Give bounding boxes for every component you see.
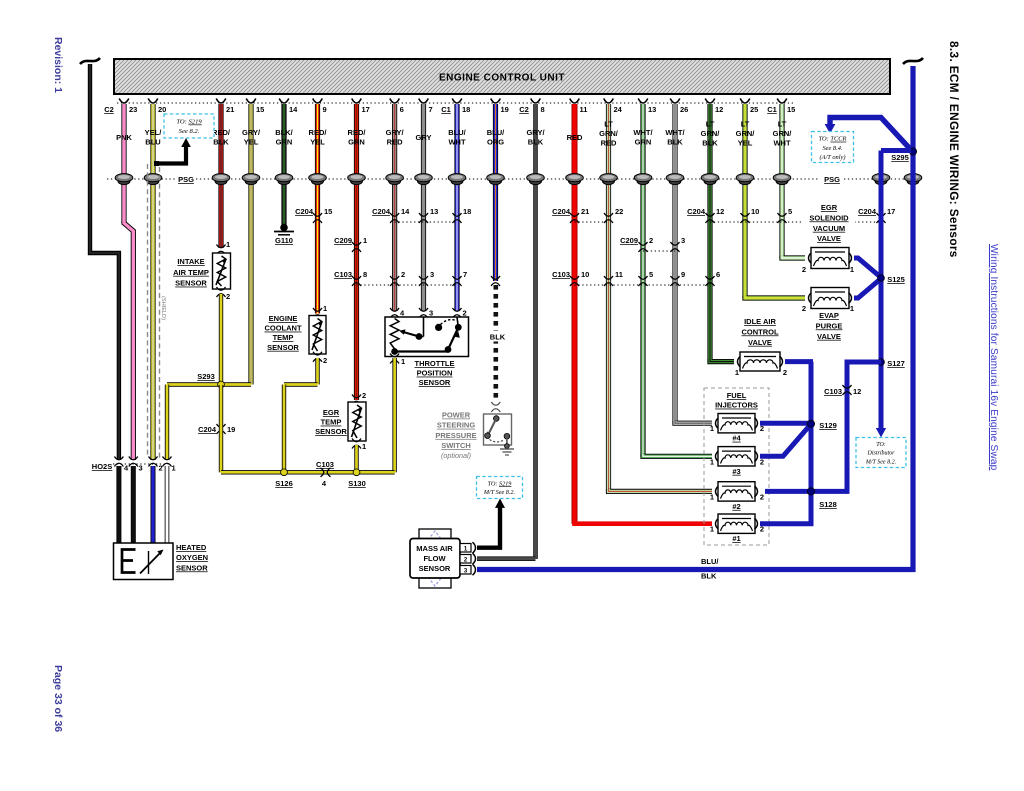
pin cup 21 [216, 99, 226, 104]
svg-text:2: 2 [323, 356, 327, 365]
pin cup 12 [705, 99, 715, 104]
junction S128 [807, 488, 814, 495]
svg-text:HO2S: HO2S [92, 462, 112, 471]
pin cup 18 [452, 99, 462, 104]
svg-text:TEMP: TEMP [321, 418, 342, 427]
svg-text:C103: C103 [334, 270, 352, 279]
grommet on GRY [418, 177, 430, 184]
svg-text:9: 9 [681, 270, 685, 279]
svg-text:C103: C103 [316, 460, 334, 469]
svg-text:Distributor: Distributor [866, 451, 895, 457]
wire BLK dashed to power steering pressure switch [493, 285, 498, 402]
fuel injectors dashed box [704, 388, 769, 545]
svg-text:GRN/: GRN/ [599, 129, 619, 138]
svg-text:5: 5 [788, 207, 792, 216]
svg-text:PNK: PNK [116, 133, 132, 142]
svg-text:YEL: YEL [310, 138, 325, 147]
pin cup 20 [148, 99, 158, 104]
svg-text:RED: RED [387, 138, 403, 147]
grommet on RED [569, 177, 581, 184]
svg-text:2: 2 [760, 492, 764, 501]
svg-text:BLU/: BLU/ [448, 128, 466, 137]
wire yellow ECT branch horizontal [284, 382, 318, 386]
svg-text:2: 2 [802, 265, 806, 274]
svg-text:15: 15 [324, 207, 332, 216]
grommet on LT GRN/BLK [704, 177, 716, 184]
wire LT GRN/BLK to idle air control valve [710, 359, 734, 362]
pin cup 26 [670, 99, 680, 104]
svg-text:10: 10 [751, 207, 759, 216]
svg-text:TO: TCCR: TO: TCCR [819, 136, 847, 143]
svg-text:1: 1 [362, 442, 366, 451]
reference box TO: S219 M/T See 8.2 [477, 477, 523, 499]
svg-text:WHT: WHT [448, 138, 465, 147]
svg-text:19: 19 [227, 425, 235, 434]
svg-text:PSG: PSG [178, 175, 194, 184]
pin cup 6 [390, 99, 400, 104]
pin cup 8 [531, 99, 541, 104]
svg-text:GRN: GRN [635, 138, 652, 147]
svg-text:#4: #4 [732, 434, 741, 443]
svg-text:See 8.2.: See 8.2. [179, 128, 200, 135]
svg-text:20: 20 [158, 105, 166, 114]
pin cup 15 [246, 99, 256, 104]
connector break row C204 14 13 18 [395, 221, 457, 223]
svg-text:GRN/: GRN/ [773, 129, 793, 138]
heated oxygen sensor box [114, 543, 174, 580]
svg-text:1: 1 [710, 424, 714, 433]
svg-text:14: 14 [401, 207, 410, 216]
svg-text:BLK/: BLK/ [275, 128, 293, 137]
junction S125 [878, 275, 885, 282]
svg-text:#1: #1 [732, 534, 740, 543]
svg-text:POWER: POWER [442, 411, 471, 420]
svg-text:1: 1 [401, 357, 405, 366]
wire PNK pin 23 from ECU [121, 104, 126, 223]
svg-text:BLK: BLK [213, 138, 229, 147]
connector break row C209 2 3 [643, 250, 675, 252]
connector break row C103 8 2 3 7 [357, 284, 458, 286]
svg-text:LT: LT [706, 120, 715, 129]
svg-text:Revision: 1: Revision: 1 [52, 37, 64, 93]
grommet on blue wire S295 branch [875, 177, 887, 184]
svg-text:12: 12 [853, 387, 861, 396]
svg-text:3: 3 [139, 464, 143, 473]
svg-text:M/T See 8.2.: M/T See 8.2. [865, 459, 896, 465]
svg-text:C204: C204 [198, 425, 217, 434]
svg-text:RED/: RED/ [348, 128, 367, 137]
svg-text:#2: #2 [732, 502, 740, 511]
blue wire from EGR solenoid valve pin1 to S125 [854, 258, 881, 278]
reference box TO: S219 See 8.2 [164, 114, 214, 138]
wire RED/YEL pin 9 from ECU [315, 104, 320, 314]
blue wire continuation squiggle top right [903, 58, 923, 64]
pin cup 13 [638, 99, 648, 104]
svg-text:C1: C1 [441, 105, 451, 114]
throttle position sensor box [385, 317, 469, 357]
wire LT GRN/RED pin 24 from ECU [606, 104, 611, 491]
svg-text:RED/: RED/ [309, 128, 328, 137]
svg-text:ENGINE: ENGINE [269, 314, 298, 323]
svg-text:17: 17 [362, 105, 370, 114]
blue wire injector 1 pin2 [760, 521, 814, 526]
svg-text:SOLENOID: SOLENOID [809, 213, 849, 222]
svg-text:2: 2 [783, 368, 787, 377]
svg-text:LT: LT [604, 120, 613, 129]
svg-text:2: 2 [401, 270, 405, 279]
connector break C204 15 on RED/YEL [313, 213, 322, 216]
TPS pin breaks and numbers [390, 308, 399, 311]
svg-text:SENSOR: SENSOR [175, 279, 207, 288]
svg-text:1: 1 [850, 265, 854, 274]
svg-text:GRN: GRN [348, 138, 365, 147]
svg-text:PRESSURE: PRESSURE [435, 431, 476, 440]
svg-text:TEMP: TEMP [273, 333, 294, 342]
svg-text:5: 5 [649, 270, 653, 279]
svg-text:GRN/: GRN/ [701, 129, 721, 138]
wire LT GRN/BLK pin 12 from ECU [707, 104, 712, 362]
connector break C204 19 [217, 424, 226, 427]
svg-text:14: 14 [289, 105, 298, 114]
svg-text:7: 7 [463, 270, 467, 279]
power steering pressure switch [484, 414, 512, 445]
svg-text:C204: C204 [858, 207, 877, 216]
svg-text:3: 3 [430, 270, 434, 279]
svg-text:C103: C103 [552, 270, 570, 279]
svg-text:3: 3 [681, 236, 685, 245]
svg-text:S126: S126 [275, 479, 293, 488]
svg-text:VALVE: VALVE [748, 338, 772, 347]
wire RED pin 11 from ECU [572, 104, 578, 524]
wire white HO2S pin1 down [165, 466, 170, 543]
svg-text:WHT/: WHT/ [665, 128, 685, 137]
svg-text:GRY: GRY [416, 133, 432, 142]
wire RED/BLK pin 21 from ECU [218, 104, 223, 248]
svg-text:OXYGEN: OXYGEN [176, 553, 208, 562]
svg-text:EGR: EGR [323, 408, 340, 417]
svg-text:BLU/: BLU/ [701, 557, 719, 566]
svg-text:25: 25 [750, 105, 758, 114]
svg-text:EVAP: EVAP [819, 311, 839, 320]
svg-text:PSG: PSG [824, 175, 840, 184]
ECU pin connector dotted line [117, 102, 793, 104]
svg-text:GRN: GRN [276, 138, 293, 147]
svg-text:CONTROL: CONTROL [741, 327, 778, 336]
grommet on GRY/BLK [530, 177, 542, 184]
pin cup 7 [419, 99, 429, 104]
grommet on blue wire main [907, 177, 919, 184]
svg-text:SWITCH: SWITCH [441, 441, 471, 450]
grommet on WHT/GRN [637, 177, 649, 184]
svg-text:6: 6 [716, 270, 720, 279]
svg-text:AIR TEMP: AIR TEMP [173, 268, 209, 277]
svg-text:Page 33 of 36: Page 33 of 36 [52, 665, 64, 732]
wire GRY pin 7 from ECU [421, 104, 426, 311]
grommet on GRY/YEL [245, 177, 257, 184]
connector break on BLU/ORG [491, 276, 500, 279]
blue wire injector 4 pin2 [760, 421, 811, 426]
svg-text:C204: C204 [552, 207, 571, 216]
pin cup 9 [313, 99, 323, 104]
pin cup 14 [279, 99, 289, 104]
svg-text:RED/: RED/ [212, 128, 231, 137]
svg-text:BLK: BLK [490, 333, 506, 342]
svg-text:M/T See 8.2.: M/T See 8.2. [483, 489, 515, 496]
svg-text:11: 11 [580, 105, 588, 114]
wire yellow ECT branch down to S126 [282, 385, 286, 473]
svg-text:21: 21 [581, 207, 589, 216]
svg-text:24: 24 [614, 105, 623, 114]
wire PNK jog to HO2S pin 3 [124, 221, 133, 460]
svg-text:15: 15 [256, 105, 264, 114]
mass air flow sensor box [410, 539, 460, 579]
svg-text:THROTTLE: THROTTLE [415, 359, 455, 368]
svg-text:BLU: BLU [145, 138, 160, 147]
wire BLK/GRN pin 14 from ECU [281, 104, 286, 226]
svg-text:(SHIELD): (SHIELD) [160, 296, 166, 320]
svg-text:12: 12 [715, 105, 723, 114]
svg-text:1: 1 [172, 464, 176, 473]
svg-text:17: 17 [887, 207, 895, 216]
pin cup 15 [777, 99, 787, 104]
svg-text:2: 2 [463, 309, 467, 318]
ECU box ENGINE CONTROL UNIT [114, 59, 890, 94]
svg-text:19: 19 [501, 105, 509, 114]
wire yellow S293 down to bus [219, 385, 223, 472]
svg-text:EGR: EGR [821, 203, 838, 212]
wire LT GRN/YEL to EVAP purge valve [745, 296, 805, 299]
svg-text:ENGINE CONTROL UNIT: ENGINE CONTROL UNIT [439, 73, 565, 84]
blue wire from EVAP valve pin1 to S125 [854, 279, 881, 299]
svg-text:MASS AIR: MASS AIR [416, 544, 453, 553]
svg-text:VALVE: VALVE [817, 234, 841, 243]
pin cup 23 [119, 99, 129, 104]
wire LT GRN/RED to injector 2 [609, 489, 713, 491]
shield tap arrow to TO:S219 [156, 146, 186, 164]
svg-text:G110: G110 [275, 236, 293, 245]
wire BLU/ORG pin 19 from ECU [493, 104, 498, 281]
connector break row C204 21 22 [575, 221, 609, 223]
wire LT GRN/WHT to EGR solenoid vacuum valve [782, 256, 805, 259]
svg-text:INJECTORS: INJECTORS [715, 401, 758, 410]
PSPS connector break [491, 402, 500, 405]
svg-text:BLK: BLK [702, 139, 718, 148]
svg-text:21: 21 [226, 105, 234, 114]
MAF pin3 blue wire BLU/BLK [477, 66, 913, 570]
grommet on PNK [118, 177, 130, 184]
svg-text:TO: S219: TO: S219 [488, 480, 512, 487]
grommet on LT GRN/RED [603, 177, 615, 184]
wire yellow ground bus horizontal [221, 470, 395, 474]
intake air temp sensor [217, 245, 226, 248]
svg-text:C1: C1 [767, 105, 777, 114]
svg-text:6: 6 [400, 105, 404, 114]
svg-text:8: 8 [363, 270, 367, 279]
svg-text:RED: RED [601, 139, 617, 148]
ground wire black from squiggle to HO2S pin 4 [90, 64, 119, 460]
grommet on YEL/BLU [147, 177, 159, 184]
svg-text:13: 13 [430, 207, 438, 216]
MAF pin boxes 1 2 3 [460, 544, 471, 553]
svg-text:9: 9 [323, 105, 327, 114]
svg-text:LT: LT [741, 120, 750, 129]
svg-text:COOLANT: COOLANT [264, 324, 301, 333]
wire BLU/WHT pin 18 from ECU [454, 104, 459, 311]
svg-text:8: 8 [541, 105, 545, 114]
svg-text:TO: S219: TO: S219 [176, 119, 202, 126]
svg-text:13: 13 [648, 105, 656, 114]
fuel injector #4 [716, 418, 719, 429]
svg-text:GRY/: GRY/ [242, 128, 261, 137]
wire YEL/BLU pin 20 from ECU [150, 104, 155, 460]
grommet on LT GRN/WHT [776, 177, 788, 184]
engine coolant temp sensor [313, 308, 322, 311]
blue wire S295 to C204-17 branch [881, 148, 911, 153]
svg-text:1: 1 [735, 368, 739, 377]
svg-text:#3: #3 [732, 467, 740, 476]
svg-text:WHT/: WHT/ [633, 128, 653, 137]
junction S129 [807, 420, 814, 427]
svg-text:C204: C204 [687, 207, 706, 216]
wire WHT/GRN pin 13 from ECU [640, 104, 645, 456]
svg-text:C209: C209 [334, 236, 352, 245]
grommet on RED/GRN [351, 177, 363, 184]
svg-text:LT: LT [778, 120, 787, 129]
svg-text:8.3. ECM / ENGINE WIRING: Sens: 8.3. ECM / ENGINE WIRING: Sensors [947, 41, 961, 258]
svg-text:FUEL: FUEL [727, 391, 747, 400]
PSG shield dotted line [107, 178, 175, 180]
svg-text:1: 1 [363, 236, 367, 245]
wire yellow to HO2S pin 1 [165, 385, 169, 461]
wire black HO2S pin4 down [116, 466, 121, 543]
svg-text:18: 18 [462, 105, 470, 114]
svg-text:22: 22 [615, 207, 623, 216]
junction S126 [281, 469, 288, 476]
pin cup 19 [491, 99, 501, 104]
wire yellow EGR temp pin1 down to S130 [354, 445, 358, 472]
svg-text:S295: S295 [891, 153, 909, 162]
svg-text:See 8.4.: See 8.4. [822, 145, 842, 152]
svg-text:S128: S128 [819, 500, 837, 509]
svg-text:C2: C2 [104, 105, 114, 114]
svg-text:2: 2 [802, 304, 806, 313]
pin cup 24 [604, 99, 614, 104]
wire yellow S293 horizontal [167, 382, 251, 386]
svg-text:7: 7 [429, 105, 433, 114]
svg-text:15: 15 [787, 105, 795, 114]
svg-text:1: 1 [710, 457, 714, 466]
svg-text:3: 3 [429, 309, 433, 318]
svg-text:(A/T only): (A/T only) [820, 154, 846, 161]
wire blue HO2S pin2 down [151, 466, 156, 543]
connector break row C209 1 [352, 242, 361, 245]
svg-text:BLK: BLK [701, 572, 717, 581]
TPS resistor zigzag [390, 319, 399, 350]
blue wire S127 branch to injectors [765, 362, 881, 491]
blue wire injector bus vertical [809, 362, 814, 524]
svg-text:YEL: YEL [738, 139, 753, 148]
MAF pin2 gray wire [477, 556, 536, 561]
ground G110 [281, 224, 288, 231]
blue wire IACV pin2 to bus [785, 359, 813, 364]
svg-text:TO:: TO: [876, 442, 886, 448]
egr solenoid vacuum valve [809, 253, 812, 264]
svg-text:S125: S125 [887, 275, 905, 284]
grommet on BLK/GRN [278, 177, 290, 184]
pin cup 17 [352, 99, 362, 104]
HO2S connector dotted line [113, 463, 170, 465]
svg-text:POSITION: POSITION [417, 369, 453, 378]
shield dashed lines around YEL/BLU [147, 164, 149, 458]
svg-text:GRN/: GRN/ [736, 129, 756, 138]
junction S130 [353, 469, 360, 476]
svg-text:1: 1 [710, 492, 714, 501]
HO2S sensing element arrow [148, 551, 150, 574]
svg-text:C204: C204 [295, 207, 314, 216]
junction S127 [878, 359, 885, 366]
wire yellow ECT pin2 down [315, 358, 319, 385]
svg-text:BLU/: BLU/ [487, 128, 505, 137]
svg-text:FLOW: FLOW [423, 554, 446, 563]
svg-text:C103: C103 [824, 387, 842, 396]
svg-text:23: 23 [129, 105, 137, 114]
svg-text:S130: S130 [348, 479, 366, 488]
fuel injector #3 [716, 451, 719, 462]
pin cup 11 [570, 99, 580, 104]
MAF pin1 black wire and arrow to TO:S219 [477, 507, 500, 548]
svg-text:18: 18 [463, 207, 471, 216]
svg-text:BLK: BLK [528, 138, 544, 147]
svg-text:SENSOR: SENSOR [419, 564, 451, 573]
wire RED/GRN pin 17 from ECU [354, 104, 359, 400]
PSPS ground symbol [505, 444, 510, 449]
grommet on WHT/BLK [669, 177, 681, 184]
wire RED to injector 1 [575, 521, 713, 524]
svg-text:Wiring Instructions for Samura: Wiring Instructions for Samurai 16v Engi… [988, 244, 999, 471]
svg-text:SENSOR: SENSOR [315, 427, 347, 436]
svg-text:1: 1 [850, 304, 854, 313]
svg-text:C204: C204 [372, 207, 391, 216]
wire yellow IAT pin2 to S293 [219, 294, 223, 385]
svg-text:BLK: BLK [667, 138, 683, 147]
mass air flow sensor tabs [419, 529, 451, 543]
label BLU/BLK [699, 556, 723, 565]
wire yellow TPS pin1 down to bus [392, 358, 396, 472]
svg-text:S129: S129 [819, 421, 837, 430]
evap purge valve [809, 293, 812, 304]
blue bus vertical S295 to S125 to S127 arrow [879, 151, 884, 430]
pin cup 25 [740, 99, 750, 104]
wire GRY/YEL pin 15 from ECU [248, 104, 253, 385]
svg-text:INTAKE: INTAKE [177, 257, 204, 266]
grommet on BLU/ORG [490, 177, 502, 184]
svg-text:GRY/: GRY/ [526, 128, 545, 137]
svg-text:10: 10 [581, 270, 589, 279]
reference box TO: Distributor M/T See 8.2 [856, 438, 906, 468]
svg-text:SENSOR: SENSOR [419, 378, 451, 387]
blue wire injector 3 pin2 diagonal [760, 424, 811, 456]
svg-text:WHT: WHT [773, 139, 790, 148]
blue wire S295 diagonal branch to TCCR arrow [830, 118, 913, 153]
junction S293 [218, 381, 225, 388]
svg-text:PURGE: PURGE [816, 321, 843, 330]
wire continuation squiggle top left [80, 58, 100, 64]
svg-text:(optional): (optional) [441, 451, 471, 460]
connector break C103 4 on bus [321, 468, 324, 477]
wire LT GRN/YEL pin 25 from ECU [742, 104, 747, 298]
junction S295 [909, 148, 916, 155]
HO2S breaks and pins [114, 457, 123, 460]
